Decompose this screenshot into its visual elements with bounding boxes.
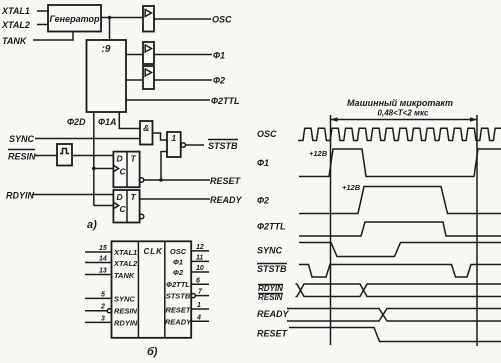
wire XTAL1 to generator [37, 10, 48, 12]
pin 2 RESIN with bubble [85, 310, 107, 312]
wire feedback to NOT gate [161, 152, 167, 181]
svg-text:Ф2TTL: Ф2TTL [166, 280, 190, 289]
svg-text:Ф1A: Ф1A [98, 117, 117, 127]
svg-text:+12В: +12В [309, 149, 328, 158]
junction dot gen output [108, 16, 112, 20]
wire F2D vertical [93, 112, 95, 206]
svg-text:Ф1: Ф1 [173, 258, 183, 267]
wire TANK to generator bottom [33, 32, 73, 41]
wire XTAL2 to generator [37, 24, 48, 26]
svg-text:STSTB: STSTB [208, 141, 238, 151]
svg-text:TANK: TANK [114, 271, 135, 280]
svg-text:OSC: OSC [170, 247, 187, 256]
svg-text:T: T [131, 154, 137, 164]
waveform OSC pulses [298, 128, 501, 140]
wire READY output [140, 198, 210, 200]
svg-text:+12В: +12В [342, 183, 361, 192]
junction dot RESET feedback [159, 178, 163, 182]
waveform F2 [299, 187, 501, 214]
pin 13 TANK [85, 274, 112, 276]
svg-text:Ф2TTL: Ф2TTL [257, 222, 286, 232]
pin 5 SYNC [85, 297, 112, 299]
svg-text:5: 5 [101, 291, 105, 298]
svg-text:а): а) [87, 219, 97, 231]
waveform SYNC [299, 243, 501, 257]
svg-text:1: 1 [197, 302, 201, 309]
waveform STSTB [299, 265, 501, 278]
svg-text:C: C [120, 204, 127, 214]
chip CLK body [112, 241, 192, 337]
clock triangle FF1 [113, 165, 118, 171]
svg-text:Ф2D: Ф2D [67, 117, 86, 127]
svg-text:RESET: RESET [257, 329, 289, 339]
svg-text:STSTB: STSTB [257, 264, 287, 274]
svg-text:Ф2: Ф2 [257, 196, 269, 206]
svg-text:б): б) [147, 346, 158, 358]
svg-text:Ф2TTL: Ф2TTL [211, 96, 240, 106]
svg-text:3: 3 [101, 315, 105, 322]
svg-text:READY: READY [210, 195, 243, 205]
svg-text:RESET: RESET [210, 176, 242, 186]
pin 3 RDYIN [85, 321, 112, 323]
reference line left [330, 115, 332, 345]
pin 4 READY [191, 320, 209, 322]
svg-text:T: T [131, 192, 137, 202]
pin 7 STSTB with bubble [191, 294, 195, 298]
svg-text:D: D [117, 154, 123, 164]
svg-text:Генератор: Генератор [50, 14, 100, 24]
waveform READY bus [287, 309, 501, 322]
svg-text:XTAL1: XTAL1 [113, 248, 137, 257]
pin 12 OSC [191, 250, 209, 252]
wire divider to buffer F2 [126, 79, 143, 81]
svg-text:SYNC: SYNC [257, 246, 283, 256]
wire schmitt out to FF1 D [72, 155, 113, 157]
wire branch down to divider [109, 18, 111, 41]
wire RESIN to schmitt [35, 155, 57, 157]
svg-text:12: 12 [196, 244, 204, 251]
junction dot F2D/C1 [92, 167, 96, 171]
flip-flop FF2 (READY) [113, 190, 139, 223]
waveform RESET [289, 328, 501, 342]
svg-text:XTAL2: XTAL2 [1, 20, 30, 30]
svg-text:C: C [120, 167, 127, 177]
svg-text:6: 6 [196, 277, 200, 284]
svg-text:Ф2: Ф2 [173, 268, 184, 277]
waveform F2TTL [299, 222, 501, 236]
dimension line with arrows [331, 119, 478, 121]
svg-text:RDYIN: RDYIN [114, 318, 138, 327]
svg-text:XTAL1: XTAL1 [1, 6, 30, 16]
wire F2 output [154, 79, 212, 81]
svg-text:STSTB: STSTB [166, 292, 191, 301]
wire F1A to AND gate [119, 112, 140, 129]
wire RESET output [144, 179, 210, 181]
wire generator output to OSC buffer [101, 17, 143, 19]
svg-text:Ф1: Ф1 [257, 158, 269, 168]
wire OSC output [154, 18, 211, 20]
svg-text:Машинный микротакт: Машинный микротакт [347, 98, 453, 108]
svg-text:RDYIN: RDYIN [258, 284, 283, 293]
wire F2D to FF2 C [94, 205, 114, 207]
svg-text:SYNC: SYNC [9, 134, 35, 144]
svg-text:2: 2 [100, 304, 105, 311]
pin 14 XTAL2 [85, 262, 112, 264]
pin 6 F2TTL [191, 283, 209, 285]
svg-text:SYNC: SYNC [114, 294, 135, 303]
wire F2D to FF1 C [94, 168, 114, 170]
pin 11 F1 [191, 260, 209, 262]
svg-text:READY: READY [257, 309, 290, 319]
output bubble NOT gate [181, 143, 185, 147]
output bubble FF1 [139, 178, 143, 182]
clock triangle FF2 [113, 202, 118, 208]
svg-text:Ф2: Ф2 [213, 76, 225, 86]
svg-text:READY: READY [165, 317, 192, 326]
oscillator block Генератор [48, 5, 101, 32]
svg-text:Ф1: Ф1 [213, 51, 225, 61]
pin 15 XTAL1 [85, 251, 112, 253]
svg-text:11: 11 [196, 254, 203, 261]
schmitt trigger [57, 144, 72, 166]
wire divider to buffer F1 [126, 54, 143, 56]
wire F2TTL output [126, 99, 210, 101]
svg-text:&: & [143, 123, 149, 133]
svg-text:14: 14 [99, 256, 107, 263]
svg-text:RDYIN: RDYIN [6, 191, 35, 201]
waveform RDYIN/RESIN bus [296, 284, 501, 297]
wire RDYIN to FF2 D [32, 194, 113, 196]
waveform F1 [299, 149, 501, 177]
svg-text:RESIN: RESIN [114, 307, 138, 316]
svg-text:0,48<T<2 мкс: 0,48<T<2 мкс [378, 109, 429, 118]
pin 1 RESET [191, 308, 209, 310]
svg-text:OSC: OSC [257, 129, 277, 139]
buffer U-OSC [143, 6, 154, 32]
svg-text:D: D [117, 192, 123, 202]
svg-text:XTAL2: XTAL2 [113, 259, 138, 268]
reference line right [476, 115, 478, 346]
svg-text:RESIN: RESIN [8, 152, 36, 162]
svg-text:15: 15 [99, 245, 107, 252]
buffer U-F1 [143, 42, 154, 64]
svg-text:RESET: RESET [165, 305, 191, 314]
svg-text:RESIN: RESIN [258, 293, 283, 302]
svg-text:1: 1 [171, 133, 176, 143]
flip-flop FF1 (RESET) [113, 152, 139, 188]
svg-text:10: 10 [196, 265, 204, 272]
pin 10 F2 [191, 271, 209, 273]
divider block :9 [87, 40, 127, 112]
wire F1 output [154, 54, 212, 56]
AND gate [140, 121, 153, 145]
wire STSTB output [186, 144, 205, 146]
svg-text:OSC: OSC [212, 15, 232, 25]
svg-text:13: 13 [99, 268, 107, 275]
svg-text:CLK: CLK [144, 247, 164, 256]
output bubble FF2 [139, 214, 143, 218]
buffer U-F2 [143, 66, 154, 89]
wire AND out to NOT gate [153, 133, 168, 140]
wire SYNC to AND gate [35, 138, 140, 140]
svg-text:4: 4 [196, 314, 201, 321]
svg-text:TANK: TANK [2, 36, 28, 46]
NOT gate 1 [167, 132, 181, 157]
svg-text::9: :9 [102, 44, 111, 55]
